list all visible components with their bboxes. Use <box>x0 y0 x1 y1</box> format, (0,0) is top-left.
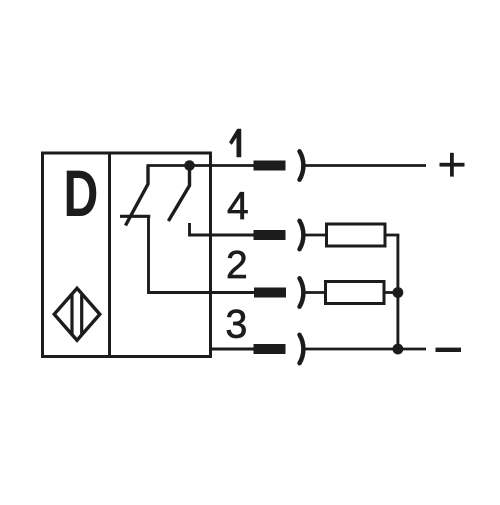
wire plus supply <box>305 164 426 167</box>
junction dot top <box>184 160 195 171</box>
minus symbol <box>436 348 462 352</box>
sensor symbol diamond <box>54 288 100 340</box>
junction dot rail pin3 <box>393 344 404 355</box>
svg-text:D: D <box>64 158 99 231</box>
NC switch lever <box>126 166 149 226</box>
svg-text:2: 2 <box>226 244 248 287</box>
wire end marker pin2 <box>254 288 286 298</box>
NO switch lever <box>168 166 189 222</box>
wire minus supply <box>305 348 426 351</box>
sensor body outline <box>43 153 211 357</box>
wire resistor4 to rail <box>385 234 399 237</box>
wire pin4 from NO contact <box>190 223 254 235</box>
svg-text:4: 4 <box>227 185 249 228</box>
load resistor pin4 <box>327 224 386 246</box>
plus symbol <box>440 153 465 177</box>
wire end marker pin4 <box>254 230 286 240</box>
wire end marker pin1 <box>254 161 286 171</box>
connector arc pin3 <box>300 335 304 364</box>
pin 1 label <box>229 129 241 157</box>
wire end marker pin3 <box>254 344 286 354</box>
sensor body divider <box>108 152 111 357</box>
connector arc pin2 <box>300 278 304 307</box>
wire pin2 to load <box>305 291 326 294</box>
wire pin3 <box>211 348 254 351</box>
connector arc pin1 <box>300 151 304 180</box>
diamond inner chord left <box>70 295 73 335</box>
junction dot rail pin2 <box>393 287 404 298</box>
diamond inner chord right <box>80 295 83 334</box>
wire pin1 bus <box>147 164 255 167</box>
svg-text:3: 3 <box>225 302 247 346</box>
label D <box>64 158 99 231</box>
connector arc pin4 <box>300 221 304 250</box>
NC switch fixed bar <box>120 215 150 218</box>
rail vertical <box>396 235 399 349</box>
wire pin2 from NC contact <box>149 216 255 292</box>
wire pin4 to load <box>305 234 327 237</box>
load resistor pin2 <box>326 282 385 304</box>
wire resistor2 to rail <box>384 291 398 294</box>
